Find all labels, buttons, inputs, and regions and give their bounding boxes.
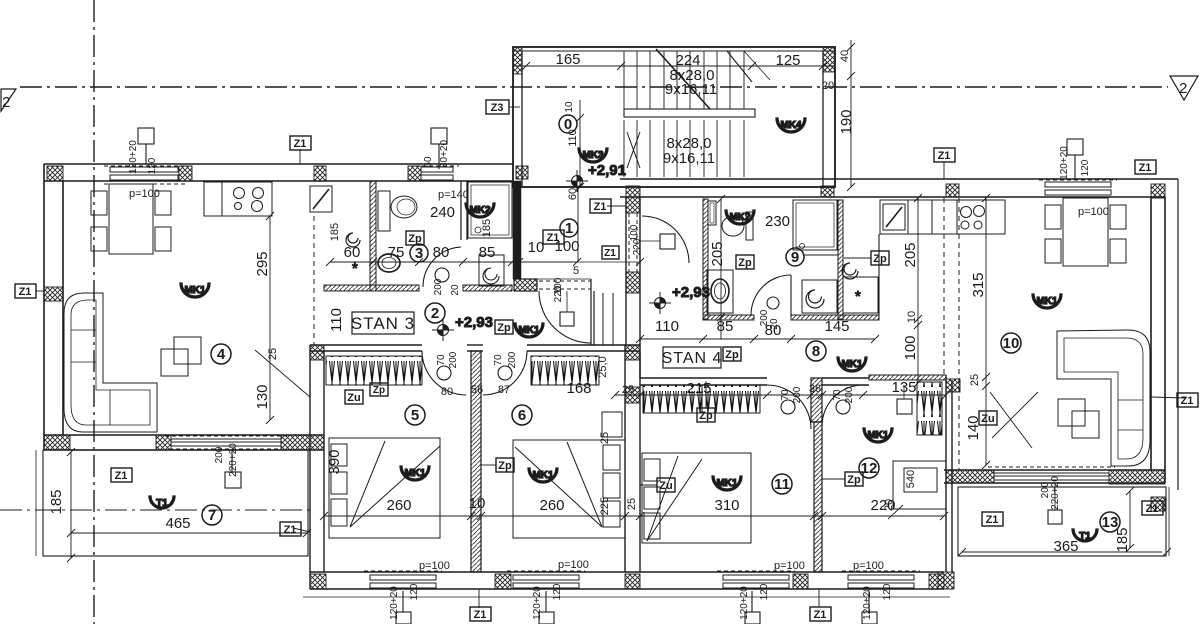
svg-text:25: 25 [626,498,638,510]
svg-text:11: 11 [774,476,790,493]
svg-text:120: 120 [882,583,893,600]
svg-text:STAN 4: STAN 4 [662,350,723,367]
svg-text:Z1: Z1 [1139,162,1152,174]
svg-text:2: 2 [2,94,10,111]
svg-text:Z1: Z1 [115,470,128,482]
svg-text:85: 85 [717,318,734,335]
svg-text:185: 185 [329,223,341,241]
svg-text:Z1: Z1 [604,248,616,259]
svg-text:110: 110 [655,318,679,335]
svg-text:9x16,11: 9x16,11 [665,81,717,98]
svg-text:315: 315 [970,272,987,297]
svg-text:Z1: Z1 [814,609,827,621]
svg-text:Zu: Zu [347,392,360,404]
svg-text:200: 200 [844,386,855,403]
svg-text:205: 205 [902,242,919,267]
svg-text:20: 20 [450,284,461,296]
svg-text:540: 540 [905,470,917,488]
svg-text:100: 100 [902,335,919,360]
svg-text:p=100: p=100 [129,188,160,200]
svg-text:10: 10 [1003,335,1020,352]
svg-text:145: 145 [824,318,849,335]
svg-text:80: 80 [433,244,450,261]
svg-text:200: 200 [214,446,225,463]
svg-text:+2,93: +2,93 [672,284,710,301]
svg-text:85: 85 [479,244,496,261]
svg-text:165: 165 [555,51,580,68]
svg-text:220: 220 [553,285,564,302]
svg-text:25: 25 [267,348,279,360]
svg-text:p=100: p=100 [853,560,884,572]
svg-text:Zp: Zp [373,385,385,396]
svg-text:Z1: Z1 [474,609,487,621]
svg-text:7: 7 [208,507,216,524]
svg-text:260: 260 [386,497,411,514]
svg-text:295: 295 [254,251,271,276]
svg-text:20: 20 [769,318,780,330]
svg-text:Zp: Zp [847,474,861,486]
svg-text:Zp: Zp [873,253,887,265]
svg-text:120+20: 120+20 [532,586,543,620]
svg-text:36: 36 [809,383,821,395]
svg-text:Z1: Z1 [594,201,607,213]
svg-text:MK3: MK3 [582,150,604,161]
svg-text:Z1: Z1 [19,286,32,298]
svg-text:5: 5 [411,407,419,424]
svg-text:120: 120 [409,583,420,600]
svg-text:p=100: p=100 [774,560,805,572]
svg-text:120: 120 [759,583,770,600]
svg-text:13: 13 [1102,514,1119,531]
svg-text:Z1: Z1 [1181,395,1194,407]
svg-text:Zp: Zp [408,233,422,245]
svg-text:*: * [352,260,358,277]
svg-text:Z1: Z1 [284,524,297,536]
svg-text:2: 2 [431,305,439,322]
svg-text:120+20: 120+20 [862,586,873,620]
svg-text:80: 80 [441,386,453,398]
svg-text:185: 185 [481,219,493,237]
svg-text:Zu: Zu [981,413,994,425]
svg-text:120+20: 120+20 [1059,146,1070,180]
svg-text:T1: T1 [156,498,168,509]
svg-text:240: 240 [430,204,455,221]
svg-text:Zu: Zu [659,480,672,492]
svg-text:25: 25 [622,384,634,396]
svg-text:2: 2 [1179,80,1187,97]
svg-text:120+20: 120+20 [389,586,400,620]
svg-text:87: 87 [498,384,510,396]
svg-text:130: 130 [254,384,271,409]
svg-text:Z1: Z1 [547,232,560,244]
svg-text:6: 6 [518,407,526,424]
svg-text:220+20: 220+20 [1050,476,1061,510]
svg-text:+2,93: +2,93 [455,314,493,331]
svg-text:185: 185 [1114,527,1131,552]
svg-text:10: 10 [564,101,575,113]
svg-text:p=100: p=100 [419,560,450,572]
svg-text:200: 200 [507,351,518,368]
svg-text:MK1: MK1 [532,470,554,481]
svg-text:MK1: MK1 [1036,296,1058,307]
svg-text:MK1: MK1 [716,478,738,489]
svg-text:MK1: MK1 [404,468,426,479]
svg-text:p=100: p=100 [558,559,589,571]
svg-text:Zp: Zp [738,257,752,269]
svg-text:5: 5 [573,265,579,277]
svg-text:MK2: MK2 [729,212,751,223]
svg-text:200: 200 [792,386,803,403]
svg-text:168: 168 [566,380,591,397]
svg-text:T1: T1 [1079,531,1091,542]
svg-text:110: 110 [328,308,345,332]
svg-text:3: 3 [415,245,423,262]
svg-text:0: 0 [564,116,572,133]
svg-text:120: 120 [147,157,158,174]
svg-text:1: 1 [565,220,573,237]
svg-text:310: 310 [714,497,739,514]
svg-text:60: 60 [344,244,361,261]
svg-text:Zp: Zp [497,322,511,334]
svg-text:70: 70 [436,354,447,366]
svg-text:p=100: p=100 [1078,206,1109,218]
svg-text:230: 230 [765,213,790,230]
svg-text:10: 10 [469,495,486,512]
svg-text:Zp: Zp [725,349,739,361]
svg-text:25: 25 [969,374,981,386]
svg-text:185: 185 [48,489,65,514]
svg-text:Zp: Zp [498,460,512,472]
svg-text:Z1: Z1 [1146,503,1159,515]
svg-text:STAN 3: STAN 3 [351,314,415,333]
svg-text:10: 10 [528,239,545,256]
svg-text:+2,91: +2,91 [588,162,626,179]
svg-text:*: * [855,288,861,305]
svg-text:9: 9 [791,249,799,266]
svg-text:Z1: Z1 [294,138,307,150]
svg-text:70: 70 [780,389,791,401]
svg-text:225: 225 [599,497,611,515]
svg-text:365: 365 [1053,538,1078,555]
svg-text:Z1: Z1 [938,150,951,162]
svg-text:MK1: MK1 [867,430,889,441]
svg-text:200: 200 [448,351,459,368]
svg-text:20: 20 [883,499,895,511]
svg-text:MK1: MK1 [518,325,540,336]
svg-text:4: 4 [217,346,226,363]
svg-text:190: 190 [838,109,855,134]
svg-text:56: 56 [471,384,483,396]
svg-text:MK2: MK2 [469,205,491,216]
svg-text:Z1: Z1 [986,514,999,526]
svg-text:8: 8 [812,343,820,360]
svg-text:120: 120 [1080,159,1091,176]
svg-text:40: 40 [839,50,851,62]
svg-text:25: 25 [599,432,611,444]
svg-text:260: 260 [539,497,564,514]
svg-text:MK1: MK1 [841,359,863,370]
svg-text:75: 75 [388,244,405,261]
svg-text:MK1: MK1 [184,285,206,296]
svg-text:205: 205 [709,241,726,266]
svg-text:9x16,11: 9x16,11 [663,150,715,167]
svg-text:70: 70 [832,389,843,401]
svg-text:10: 10 [906,311,918,323]
svg-text:MK4: MK4 [780,120,802,131]
svg-text:Z3: Z3 [491,102,504,114]
svg-text:25,0: 25,0 [597,356,609,377]
svg-text:390: 390 [326,449,343,474]
svg-text:Zp: Zp [699,410,713,422]
svg-text:465: 465 [165,515,190,532]
svg-text:120+20: 120+20 [128,140,139,174]
svg-text:p=140: p=140 [438,189,469,201]
svg-text:215: 215 [686,380,711,397]
svg-text:120: 120 [552,583,563,600]
svg-text:200: 200 [433,278,444,295]
svg-text:20: 20 [822,80,834,92]
svg-text:70: 70 [493,354,504,366]
svg-text:60: 60 [423,156,434,168]
